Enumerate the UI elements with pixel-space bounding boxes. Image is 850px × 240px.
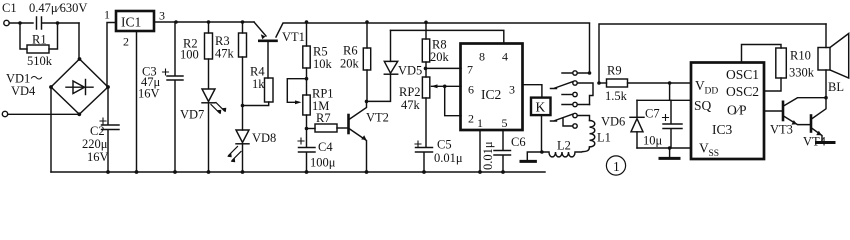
wire VT1 base to R4 [267, 42, 269, 78]
wire [9, 22, 33, 24]
svg-text:O∕P: O∕P [727, 103, 747, 118]
svg-text:C1: C1 [2, 1, 17, 15]
svg-text:OSC2: OSC2 [726, 84, 759, 99]
svg-text:1: 1 [104, 8, 110, 22]
wire bridge minus to rail [50, 87, 52, 172]
svg-text:10μ: 10μ [643, 134, 663, 148]
wire IC2 pin1 [479, 130, 481, 172]
capacitor C2 [102, 87, 120, 172]
capacitor C3 [167, 22, 183, 172]
resistor R7 [307, 128, 316, 130]
ground (relay) [527, 152, 542, 161]
svg-text:1: 1 [613, 159, 620, 174]
capacitor C7 [663, 100, 682, 148]
resistor R10 [776, 48, 787, 78]
wire VSS [637, 147, 691, 149]
bridge inner diode [66, 86, 93, 88]
svg-text:VT1: VT1 [282, 30, 305, 44]
svg-text:47k: 47k [215, 47, 235, 61]
svg-text:VT2: VT2 [366, 111, 389, 125]
svg-text:OSC1: OSC1 [726, 67, 759, 82]
svg-text:100μ: 100μ [310, 156, 336, 170]
svg-text:10k: 10k [313, 57, 333, 71]
svg-text:IC1: IC1 [121, 15, 141, 30]
svg-text:C2: C2 [90, 124, 105, 138]
svg-text:VD8: VD8 [252, 131, 276, 145]
bottom rail [51, 171, 545, 173]
node [18, 21, 22, 25]
resistor R6 [365, 20, 369, 24]
IC1 [116, 11, 154, 31]
svg-text:V: V [695, 78, 705, 93]
svg-text:1.5k: 1.5k [605, 89, 628, 103]
capacitor C5 [416, 98, 433, 172]
switch contact c1 [573, 92, 577, 96]
svg-text:0.47μ∕630V: 0.47μ∕630V [29, 1, 87, 15]
svg-text:RP2: RP2 [399, 85, 421, 99]
wire VDD node down to SQ line [669, 83, 671, 100]
svg-text:VD7: VD7 [180, 108, 204, 122]
wire [78, 23, 80, 59]
right rail [599, 24, 826, 83]
terminal input 2 [2, 111, 7, 116]
svg-text:8: 8 [479, 50, 485, 64]
svg-text:47k: 47k [401, 98, 421, 112]
inductor L1 [590, 121, 595, 147]
svg-text:3: 3 [509, 83, 515, 97]
speaker BL [825, 24, 827, 48]
resistor R5 [305, 20, 309, 24]
transistor VT3 (NPN) [782, 102, 785, 120]
transistor VT4 (NPN) [810, 116, 813, 132]
wire IC2 pin3 to K [523, 85, 542, 98]
svg-text:L1: L1 [597, 131, 611, 145]
transistor VT1 (PNP) [254, 22, 266, 36]
svg-text:5: 5 [502, 116, 508, 130]
svg-text:2: 2 [123, 35, 129, 49]
resistor R8 [424, 21, 428, 25]
capacitor C6 [494, 130, 511, 172]
potentiometer RP2 [425, 68, 427, 77]
bridge rectifier VD1-VD4 [51, 59, 108, 114]
svg-text:R1: R1 [32, 33, 47, 47]
svg-text:L2: L2 [557, 139, 571, 153]
capacitor C4 [299, 129, 316, 173]
wire IC2 pin7 [426, 67, 462, 69]
svg-text:1: 1 [477, 116, 483, 130]
svg-text:20k: 20k [430, 50, 450, 64]
switch contact a2 [573, 102, 577, 106]
svg-text:IC2: IC2 [481, 87, 501, 102]
svg-text:C7: C7 [645, 107, 660, 121]
wire IC2 pin2 [445, 86, 461, 115]
ground (VT4) [817, 141, 835, 144]
svg-text:VD5: VD5 [398, 64, 422, 78]
resistor R3 [241, 20, 245, 24]
svg-text:220μ: 220μ [82, 137, 108, 151]
inductor L2 [542, 147, 590, 157]
wire left rail end down to switch [589, 24, 591, 73]
switch contact b1 [573, 81, 577, 85]
node R3/R4 [241, 104, 245, 108]
svg-text:SS: SS [709, 149, 720, 159]
ground (C7/VSS) [668, 146, 672, 150]
wire IC1 pin1 [107, 23, 116, 88]
svg-text:BL: BL [828, 80, 844, 94]
svg-text:V: V [699, 141, 709, 156]
transistor VT2 (NPN) [347, 115, 350, 133]
svg-text:C6: C6 [511, 135, 526, 149]
svg-text:R10: R10 [790, 49, 811, 63]
svg-text:SQ: SQ [694, 98, 712, 113]
svg-text:1k: 1k [252, 77, 265, 91]
svg-text:2: 2 [468, 112, 474, 126]
svg-text:VD4: VD4 [11, 84, 36, 98]
switch contact a1 [573, 71, 577, 75]
wire IC1 pin3 [154, 21, 254, 23]
label circled 1 [606, 156, 625, 175]
svg-text:R9: R9 [607, 64, 622, 78]
wire O/P to VT3 [764, 110, 782, 112]
wire VD5 to IC2 pin4 [391, 30, 504, 43]
relay coil K [531, 98, 551, 116]
svg-text:7: 7 [467, 63, 473, 77]
resistor R4 [265, 78, 274, 102]
svg-text:DD: DD [705, 87, 719, 97]
wire OSC1 loop to R10 [742, 45, 782, 63]
terminal input 1 [4, 20, 9, 25]
resistor R2 [207, 20, 211, 24]
svg-text:4: 4 [502, 50, 508, 64]
svg-text:C5: C5 [437, 138, 452, 152]
svg-text:VT4: VT4 [803, 135, 827, 149]
switch lever 1 [551, 82, 573, 89]
svg-text:510k: 510k [27, 54, 53, 68]
potentiometer RP1 [303, 95, 310, 115]
switch lever 2 [551, 114, 573, 126]
svg-text:R7: R7 [316, 111, 331, 125]
wire [8, 113, 80, 115]
svg-text:K: K [536, 100, 546, 115]
svg-text:16V: 16V [138, 87, 160, 101]
svg-text:VD6: VD6 [601, 115, 625, 129]
resistor R9 [599, 82, 607, 84]
svg-text:VT3: VT3 [770, 123, 793, 137]
IC3 [691, 63, 764, 160]
svg-text:3: 3 [159, 9, 165, 23]
svg-text:0.01μ: 0.01μ [481, 141, 495, 170]
diode VD5 [384, 61, 397, 73]
svg-text:6: 6 [468, 83, 474, 97]
svg-text:20k: 20k [340, 57, 360, 71]
svg-text:R6: R6 [343, 44, 358, 58]
switch contact b2 [573, 113, 577, 117]
switch contact c2 [573, 124, 577, 128]
resistor R1 [20, 23, 58, 49]
svg-text:C4: C4 [318, 140, 333, 154]
svg-text:330k: 330k [789, 66, 815, 80]
capacitor C1 [37, 17, 80, 29]
svg-text:16V: 16V [87, 150, 109, 164]
svg-text:IC3: IC3 [712, 122, 733, 137]
LED VD7 [202, 89, 215, 102]
wire SQ [637, 99, 691, 101]
zener VD6 [636, 100, 638, 117]
IC2 [461, 44, 523, 131]
wire IC1 pin2 [136, 31, 138, 172]
svg-text:0.01μ: 0.01μ [434, 151, 463, 165]
LED VD8 [236, 130, 249, 143]
wire R6/VT2 to VD5 [367, 75, 391, 101]
svg-text:100: 100 [180, 48, 199, 62]
